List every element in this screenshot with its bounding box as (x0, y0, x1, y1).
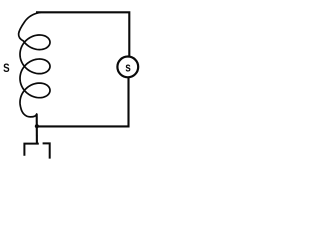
inductor coil S (3 loops) (19, 12, 50, 117)
wire: top horizontal from coil to top-right corner, then down to switch circle (36, 12, 129, 56)
svg-text:s: s (125, 62, 131, 75)
wire: from circle bottom down to bottom-right corner, then left to junction (37, 78, 129, 127)
terminal bracket right (43, 143, 50, 158)
meter s (circle symbol) (117, 57, 138, 78)
node (junction dot) (35, 124, 39, 128)
terminal bracket left (24, 144, 38, 156)
svg-text:S: S (3, 62, 10, 75)
wire: coil tail down through node to terminals (36, 114, 38, 144)
